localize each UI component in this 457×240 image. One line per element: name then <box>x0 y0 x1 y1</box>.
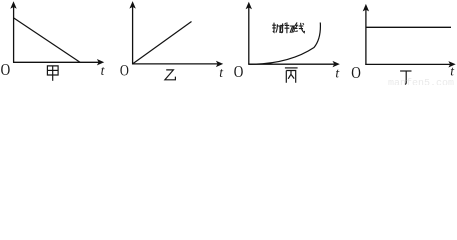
graph 3 caption: hand-drawn CJK 丙 <box>285 68 298 83</box>
svg-text:O: O <box>234 62 244 81</box>
svg-text:manfen5.com: manfen5.com <box>388 77 454 85</box>
graph 1 decreasing line <box>14 18 80 62</box>
graph 4 y-axis arrowhead <box>363 4 369 11</box>
graph 2 x-axis <box>132 63 218 65</box>
graph 1 x-axis <box>13 61 99 63</box>
graph 3 (bing) y-axis <box>248 4 250 65</box>
graph 1 y-axis arrowhead <box>10 1 16 9</box>
graph 2 y-axis arrowhead <box>129 1 135 9</box>
graph 4 x-axis <box>365 63 450 65</box>
graph 1 caption: hand-drawn CJK 甲 <box>47 66 58 81</box>
svg-text:O: O <box>1 60 11 79</box>
graph 3 parabola curve <box>249 23 320 65</box>
svg-text:O: O <box>120 62 129 80</box>
graph 1 (jia) y-axis <box>13 4 15 63</box>
graph 3 curve label: hand-drawn CJK 抛物线 <box>272 22 304 33</box>
graph 4 horizontal constant line <box>366 26 451 28</box>
graph 1 x-axis arrowhead <box>97 59 104 65</box>
graph 4 x-axis arrowhead <box>448 61 455 67</box>
graph 4 caption: hand-drawn CJK 丁 <box>400 71 411 85</box>
graph 2 (yi) y-axis <box>132 3 134 64</box>
graph 3 x-axis <box>248 63 334 65</box>
graph 3 y-axis arrowhead <box>246 2 252 10</box>
graph 2 caption: hand-drawn CJK 乙 <box>165 70 176 80</box>
graph 3 x-axis arrowhead <box>333 61 340 67</box>
graph 2 increasing line <box>133 22 192 64</box>
graph 4 (ding) y-axis <box>365 6 367 65</box>
graph 2 x-axis arrowhead <box>216 61 223 67</box>
svg-text:O: O <box>351 64 361 83</box>
